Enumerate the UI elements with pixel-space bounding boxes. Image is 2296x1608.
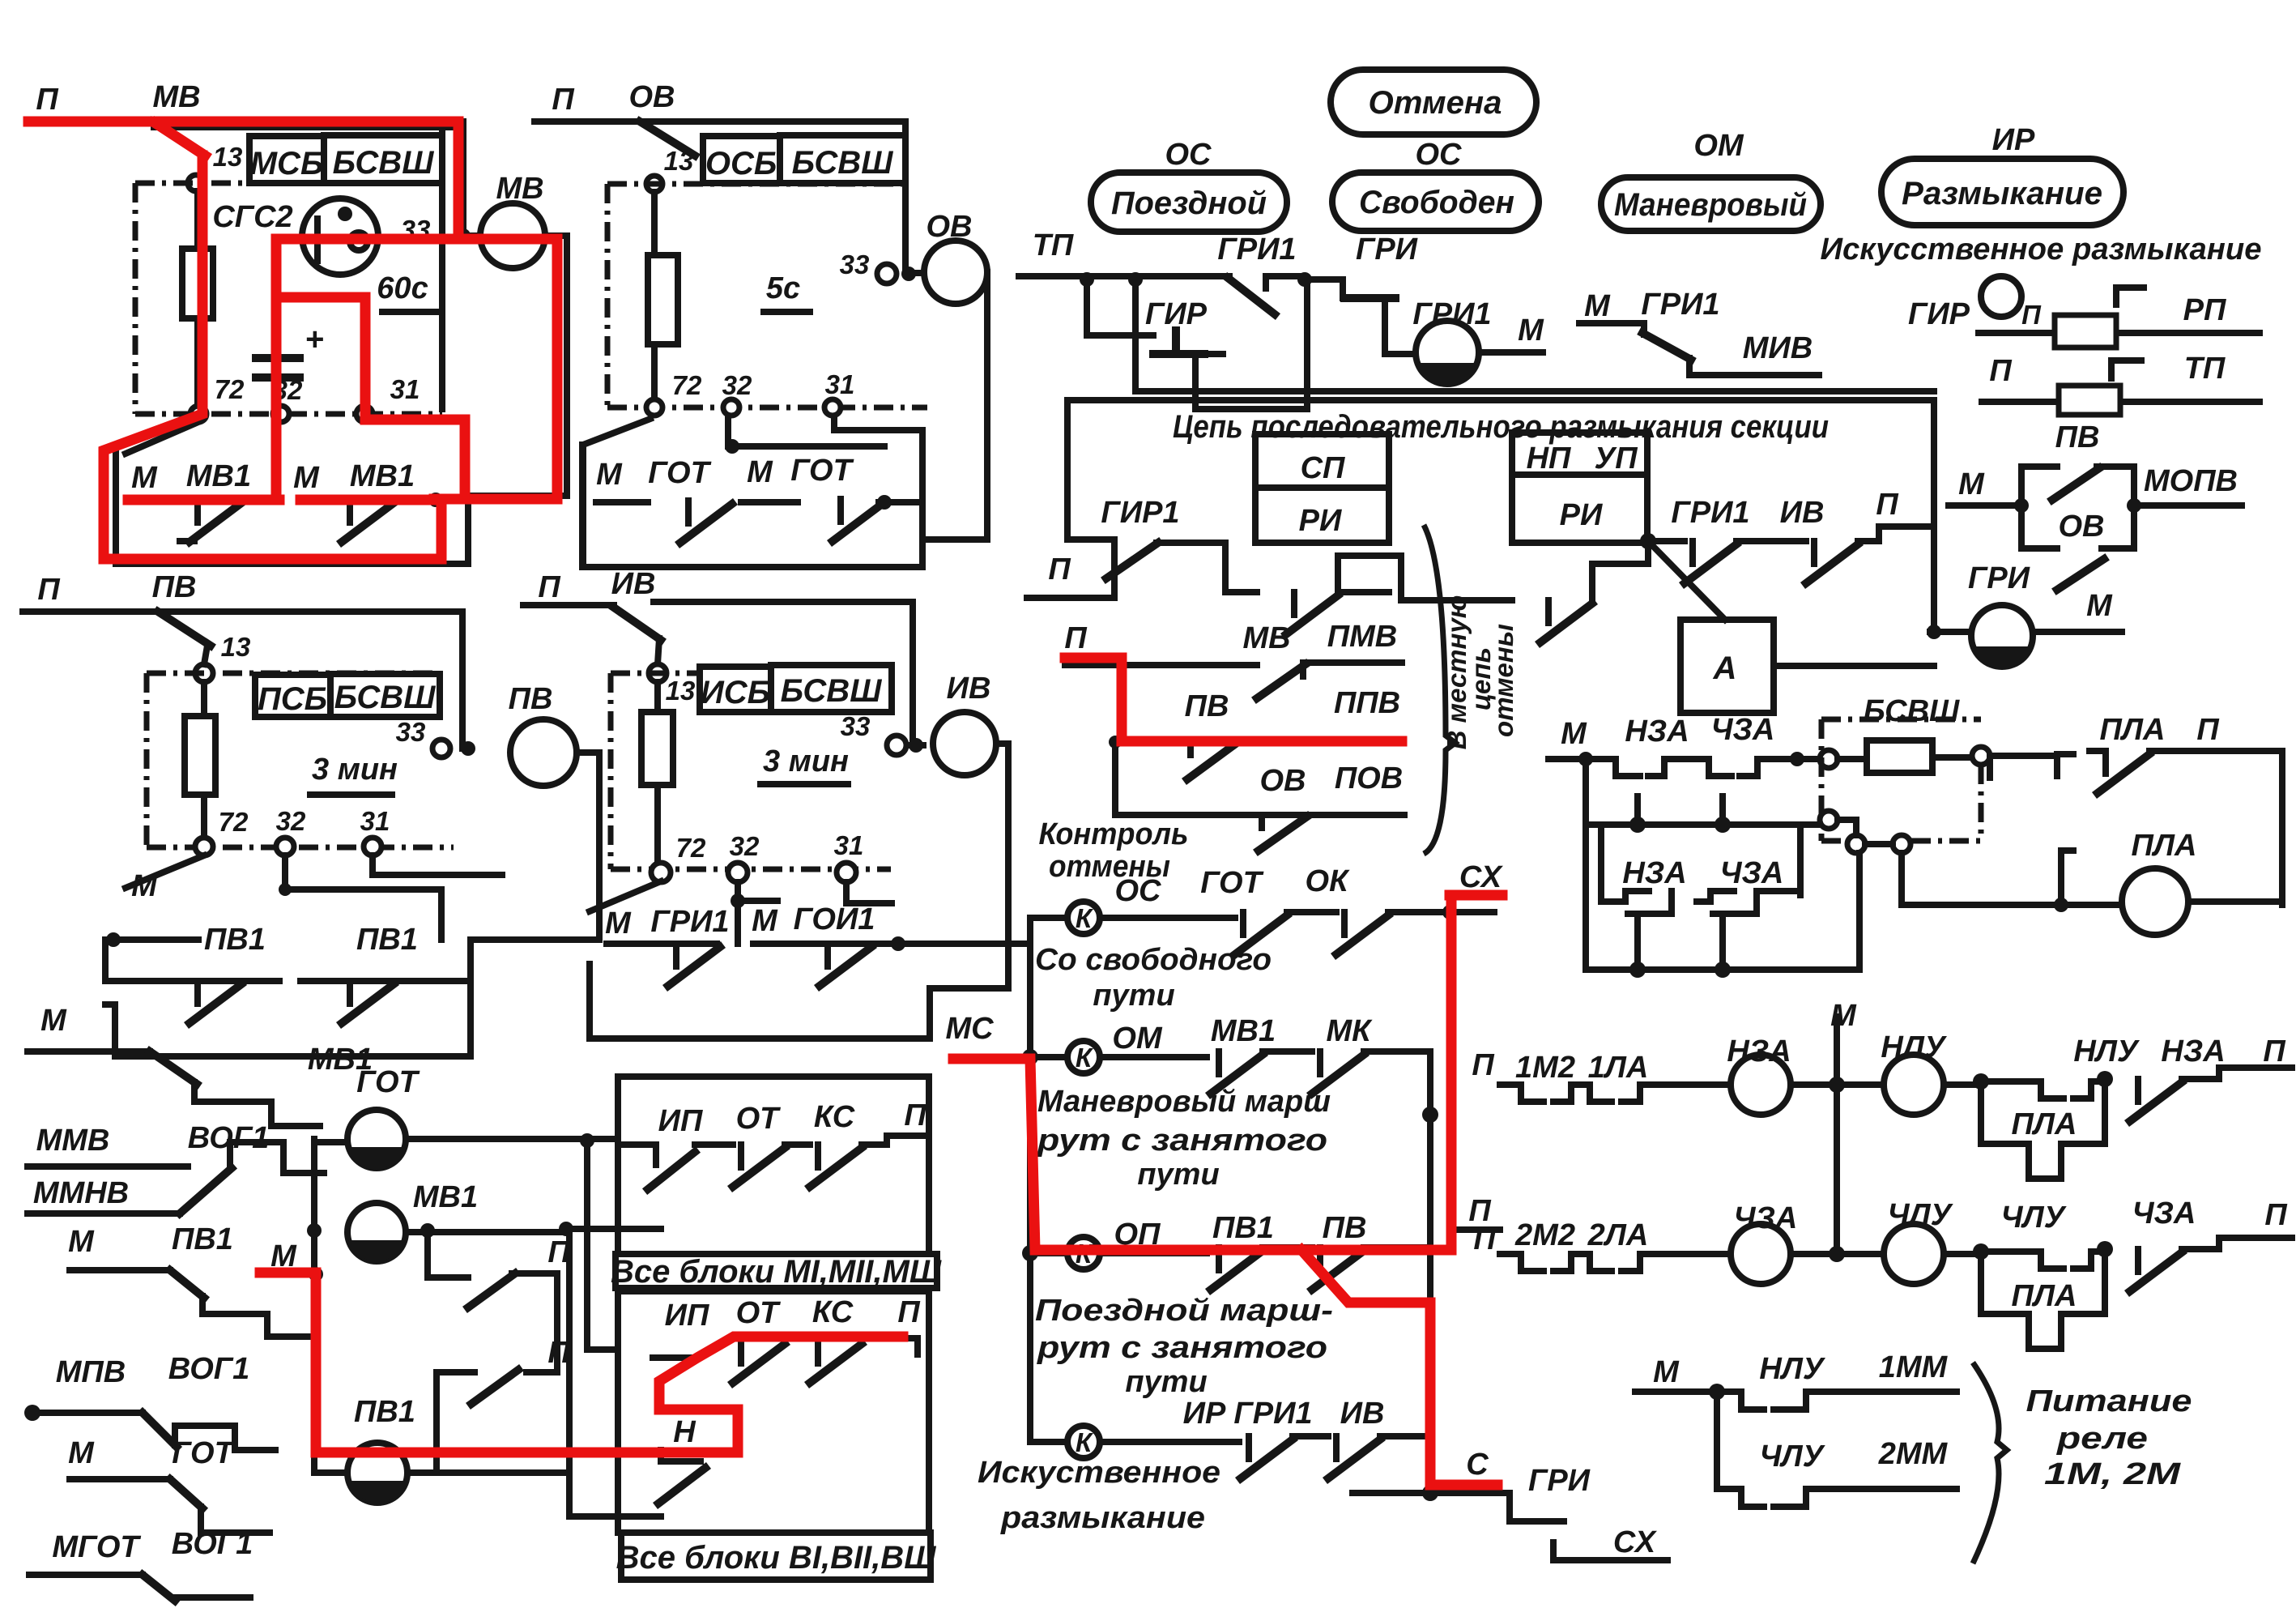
svg-text:М: М — [131, 461, 158, 495]
contact IV — [614, 608, 661, 640]
svg-text:МВ1: МВ1 — [413, 1180, 478, 1214]
svg-text:ОВ: ОВ — [1260, 764, 1306, 798]
svg-text:ОВ: ОВ — [2059, 510, 2105, 544]
svg-text:МВ: МВ — [152, 80, 200, 114]
block bottom dash — [611, 867, 891, 872]
contact GRI1 — [1228, 278, 1275, 314]
button GIR — [1153, 331, 1204, 354]
svg-text:3 мин: 3 мин — [763, 744, 849, 778]
svg-text:ОТ: ОТ — [736, 1102, 782, 1136]
right bus — [1427, 1057, 1433, 1442]
svg-text:ИР: ИР — [1183, 1397, 1226, 1431]
OV contact lower branch — [2021, 505, 2134, 548]
wire to lower contacts — [126, 422, 198, 454]
wire PLA row — [1902, 902, 2282, 905]
strip Vse bloki V — [621, 1533, 931, 1580]
svg-text:МК: МК — [1326, 1014, 1373, 1048]
svg-text:ПМВ: ПМВ — [1327, 620, 1397, 654]
wire P feed — [535, 122, 920, 273]
svg-text:РП: РП — [2183, 293, 2226, 327]
motor element — [302, 198, 378, 275]
resistor — [648, 255, 678, 344]
contact RI — [1286, 592, 1338, 634]
relay box BSVSH — [771, 665, 892, 712]
svg-text:С: С — [1466, 1448, 1489, 1482]
svg-text:П: П — [547, 1336, 570, 1370]
row OP — [1022, 1245, 1038, 1261]
svg-text:размыкание: размыкание — [1000, 1501, 1205, 1535]
box A — [1680, 620, 1774, 713]
svg-text:БСВШ: БСВШ — [792, 145, 894, 181]
svg-text:ГРИ1: ГРИ1 — [1217, 232, 1296, 267]
junction — [456, 228, 471, 243]
svg-text:ПВ: ПВ — [509, 682, 553, 716]
svg-text:ПВ: ПВ — [152, 570, 197, 604]
svg-text:ОС: ОС — [1115, 874, 1162, 908]
svg-text:РИ: РИ — [1560, 498, 1603, 532]
svg-text:ММВ: ММВ — [36, 1124, 110, 1158]
svg-text:2ЛА: 2ЛА — [1587, 1218, 1649, 1252]
svg-text:ВОГ1: ВОГ1 — [168, 1352, 250, 1386]
sub box NZA ChZA rails — [1586, 759, 1859, 970]
svg-text:ГИР: ГИР — [1145, 297, 1208, 331]
svg-text:К: К — [1076, 1427, 1094, 1457]
svg-text:ЧЛУ: ЧЛУ — [1760, 1440, 1826, 1474]
svg-text:Поездной: Поездной — [1111, 186, 1267, 221]
svg-text:ГОТ: ГОТ — [648, 456, 711, 490]
BSVSH terminals — [1820, 750, 1838, 768]
svg-text:13: 13 — [221, 632, 251, 662]
svg-text:ПЛА: ПЛА — [2132, 829, 2197, 863]
svg-text:М: М — [2086, 589, 2113, 623]
svg-text:П: П — [2196, 713, 2219, 747]
svg-text:П: П — [1472, 1048, 1494, 1082]
svg-text:М: М — [1561, 717, 1587, 751]
block top dash — [147, 671, 440, 676]
row OM — [1022, 1049, 1038, 1065]
svg-text:П: П — [1064, 621, 1087, 655]
svg-text:П: П — [1473, 1222, 1496, 1256]
svg-text:ОС: ОС — [1416, 138, 1463, 172]
block top dash — [611, 671, 700, 676]
svg-text:ГРИ1: ГРИ1 — [1641, 288, 1719, 322]
contact IV — [1806, 541, 1858, 583]
relay box OSB — [703, 136, 780, 183]
relay GRI1 (half fill) — [1385, 319, 1416, 354]
svg-text:БСВШ: БСВШ — [1864, 694, 1960, 728]
wire into terminal — [658, 638, 659, 664]
contact PV1 — [1211, 1248, 1263, 1290]
svg-text:ПВ1: ПВ1 — [1212, 1211, 1274, 1245]
svg-text:НЛУ: НЛУ — [1881, 1030, 1948, 1064]
contact bar PV1 — [121, 978, 471, 984]
svg-text:Питание: Питание — [2026, 1384, 2192, 1418]
oval Manevroviy — [1601, 177, 1821, 231]
fuse TP body — [2059, 386, 2120, 415]
svg-text:60с: 60с — [377, 271, 428, 305]
svg-text:отмены: отмены — [1489, 624, 1519, 737]
svg-text:ПВ1: ПВ1 — [356, 923, 418, 957]
wire resistor — [194, 191, 201, 406]
fuse RP wire — [1979, 330, 2260, 336]
svg-text:1ЛА: 1ЛА — [1588, 1051, 1649, 1085]
box outline — [1067, 400, 1934, 632]
svg-text:ГРИ: ГРИ — [1356, 232, 1418, 267]
M bar — [105, 936, 198, 943]
svg-text:72: 72 — [676, 833, 706, 863]
svg-text:ТП: ТП — [1033, 228, 1074, 262]
resistor wires — [651, 192, 658, 406]
svg-text:РИ: РИ — [1299, 504, 1342, 538]
relay box BSVSH — [324, 135, 442, 183]
wire MOPV — [2134, 502, 2242, 509]
svg-text:31: 31 — [825, 369, 855, 399]
red trace MS — [953, 895, 1502, 1250]
svg-text:ГРИ1: ГРИ1 — [1412, 297, 1491, 331]
wire M right — [2033, 629, 2122, 635]
vertical MV1 to PV1 — [569, 1229, 661, 1516]
svg-text:1М, 2М: 1М, 2М — [2044, 1457, 2182, 1491]
red trace to S — [1301, 1250, 1497, 1485]
svg-text:ИР: ИР — [1992, 123, 2035, 157]
wire terminal to contacts — [590, 881, 661, 911]
contact GRI closed bar — [1305, 279, 1385, 319]
svg-text:32: 32 — [276, 806, 306, 836]
relay box ISB — [700, 667, 771, 712]
svg-text:П: П — [36, 83, 58, 117]
contact GIR1 — [1106, 543, 1158, 578]
svg-text:+: + — [305, 322, 323, 357]
svg-text:Маневровый: Маневровый — [1614, 187, 1807, 223]
block top dash — [607, 181, 905, 187]
wire P feed — [523, 602, 614, 608]
svg-text:ПВ: ПВ — [2055, 420, 2100, 454]
svg-text:П: П — [1048, 552, 1071, 586]
svg-text:Все блоки ВI,ВII,ВШ: Все блоки ВI,ВII,ВШ — [616, 1540, 937, 1576]
svg-text:31: 31 — [834, 830, 864, 860]
wire M — [1479, 349, 1543, 356]
contact 1M2 (step) — [1521, 1085, 1571, 1102]
brace — [1424, 525, 1455, 854]
svg-text:М: М — [752, 904, 778, 938]
svg-text:МВ1: МВ1 — [186, 459, 251, 493]
svg-text:М: М — [596, 458, 623, 492]
wire to GRI coil — [1930, 629, 1971, 635]
svg-text:М: М — [1518, 313, 1544, 348]
svg-text:ГРИ1: ГРИ1 — [1671, 496, 1749, 530]
PLA box row2 — [1981, 1257, 2105, 1349]
svg-text:реле: реле — [2056, 1422, 2148, 1456]
main row wire — [1548, 756, 1822, 762]
svg-text:13: 13 — [666, 676, 696, 706]
svg-text:ГРИ1: ГРИ1 — [1233, 1397, 1312, 1431]
contact bar — [607, 901, 892, 944]
block bottom dash — [607, 405, 927, 411]
svg-text:НЗА: НЗА — [1622, 856, 1686, 890]
svg-text:13: 13 — [664, 146, 694, 176]
svg-text:М: М — [68, 1436, 95, 1470]
svg-text:ОВ: ОВ — [629, 80, 675, 114]
oval Svoboden — [1332, 173, 1539, 231]
svg-text:МПВ: МПВ — [56, 1355, 126, 1389]
svg-text:Цепь последовательного размыка: Цепь последовательного размыкания секции — [1173, 409, 1829, 445]
red trace block MV — [28, 122, 557, 559]
relay PV1 half filled — [347, 1443, 407, 1503]
svg-text:ЧЗА: ЧЗА — [2132, 1196, 2196, 1231]
svg-text:ОВ: ОВ — [926, 210, 973, 244]
contact MK — [1312, 1051, 1364, 1094]
fuse TP wire — [1982, 399, 2260, 405]
svg-text:СП: СП — [1301, 451, 1345, 485]
svg-text:13: 13 — [213, 142, 243, 172]
svg-text:ОМ: ОМ — [1112, 1022, 1163, 1056]
relay coil OV — [924, 241, 987, 304]
fuse TP bracket — [2111, 360, 2141, 378]
resistor R — [182, 249, 213, 318]
svg-text:МИВ: МИВ — [1743, 331, 1813, 365]
svg-text:Маневровый марш: Маневровый марш — [1037, 1085, 1331, 1119]
lower contact bar — [128, 497, 468, 503]
svg-text:ИВ: ИВ — [1780, 496, 1825, 530]
svg-text:ЧЛУ: ЧЛУ — [2001, 1201, 2068, 1235]
contact OK — [1336, 912, 1388, 954]
svg-text:ПВ1: ПВ1 — [204, 923, 266, 957]
svg-text:М: М — [605, 906, 632, 940]
PV1 right wire — [407, 1469, 568, 1476]
strip Vse bloki M — [616, 1254, 937, 1288]
GOT wires — [314, 1139, 618, 1142]
svg-text:32: 32 — [722, 370, 752, 400]
box IP OT KS P upper — [618, 1077, 929, 1254]
wire P feed — [154, 122, 480, 236]
svg-text:пути: пути — [1137, 1158, 1219, 1192]
svg-text:НП: НП — [1527, 441, 1571, 476]
svg-text:П: П — [2264, 1198, 2287, 1232]
svg-text:СГС2: СГС2 — [212, 200, 292, 234]
contacts row — [618, 1145, 656, 1165]
wire P feed — [23, 612, 468, 749]
contact PV — [158, 612, 211, 646]
svg-text:НЗА: НЗА — [2161, 1034, 2225, 1068]
relay coil PLA — [2122, 868, 2188, 935]
relay coil IV — [933, 712, 996, 775]
row IR — [1030, 1439, 1067, 1445]
svg-text:Искусственное размыкание: Искусственное размыкание — [1821, 232, 2262, 267]
block left edge — [133, 183, 138, 414]
svg-text:П: П — [1876, 488, 1898, 522]
PLA box row1 — [1981, 1087, 2105, 1179]
svg-text:Н: Н — [673, 1415, 696, 1449]
capacitor C — [256, 358, 300, 377]
resistor — [1867, 740, 1932, 773]
resistor — [185, 716, 215, 795]
svg-text:ГОТ: ГОТ — [172, 1436, 235, 1470]
svg-text:33: 33 — [841, 711, 871, 741]
svg-text:1ММ: 1ММ — [1879, 1350, 1949, 1384]
svg-text:МОПВ: МОПВ — [2144, 464, 2238, 498]
svg-text:пути: пути — [1125, 1365, 1207, 1399]
svg-text:ТП: ТП — [2184, 352, 2226, 386]
svg-text:Контроль: Контроль — [1039, 817, 1189, 851]
svg-text:БСВШ: БСВШ — [333, 145, 435, 181]
svg-text:31: 31 — [390, 374, 420, 404]
block left edge — [605, 184, 611, 407]
svg-text:НЛУ: НЛУ — [1759, 1352, 1826, 1386]
svg-text:ПВ1: ПВ1 — [172, 1222, 233, 1256]
block top dash line — [135, 181, 442, 186]
svg-text:3 мин: 3 мин — [312, 753, 398, 787]
relay box BSVSH — [330, 674, 440, 717]
svg-text:ГОТ: ГОТ — [356, 1065, 420, 1099]
svg-text:ЧЗА: ЧЗА — [1720, 856, 1784, 890]
contact GRI1 — [1241, 1436, 1293, 1478]
svg-text:33: 33 — [840, 250, 870, 279]
svg-text:ГОТ: ГОТ — [1200, 866, 1263, 900]
block left edge — [608, 673, 614, 869]
relay K OP — [1067, 1237, 1100, 1269]
contact RI second — [1540, 600, 1592, 642]
svg-text:ОСБ: ОСБ — [705, 146, 777, 181]
svg-text:Все блоки МI,МII,МШ: Все блоки МI,МII,МШ — [611, 1254, 942, 1290]
indicator GIR circle — [1981, 276, 2021, 317]
OV contact upper branch — [2021, 467, 2057, 505]
svg-text:К: К — [1076, 1043, 1094, 1073]
svg-text:П: П — [552, 83, 574, 117]
svg-text:М: М — [131, 869, 158, 903]
left bus — [1027, 918, 1033, 1442]
svg-text:ПОВ: ПОВ — [1335, 761, 1403, 795]
M vertical — [1834, 1017, 1840, 1254]
svg-text:СХ: СХ — [1459, 860, 1504, 894]
svg-text:П: П — [538, 570, 560, 604]
contact IV — [1328, 1436, 1380, 1478]
svg-text:УП: УП — [1594, 441, 1638, 476]
svg-text:КС: КС — [812, 1295, 854, 1329]
svg-text:П: П — [2263, 1034, 2285, 1068]
svg-text:МВ: МВ — [1242, 621, 1290, 655]
svg-text:ИП: ИП — [665, 1299, 709, 1333]
svg-text:ГОТ: ГОТ — [790, 454, 854, 488]
svg-text:М: М — [747, 455, 773, 489]
wire to A box — [1648, 541, 1725, 620]
svg-text:Размыкание: Размыкание — [1902, 176, 2102, 211]
block bottom dash line — [135, 412, 442, 417]
svg-text:Искуственное: Искуственное — [978, 1456, 1220, 1490]
svg-text:БСВШ: БСВШ — [334, 680, 437, 715]
oval Poezdnoy — [1091, 173, 1287, 232]
svg-text:П: П — [897, 1295, 920, 1329]
svg-text:72: 72 — [215, 374, 245, 404]
svg-text:Со свободного: Со свободного — [1035, 943, 1272, 977]
svg-text:Поездной марш-: Поездной марш- — [1035, 1294, 1333, 1328]
svg-text:ЧЗА: ЧЗА — [1711, 713, 1775, 747]
svg-text:33: 33 — [396, 717, 426, 747]
relay MV1 half filled — [347, 1203, 406, 1261]
red trace local cancel — [1065, 658, 1402, 741]
wire M — [1949, 502, 2021, 509]
svg-text:НЗА: НЗА — [1625, 714, 1689, 749]
svg-text:ИВ: ИВ — [947, 672, 991, 706]
svg-text:5с: 5с — [766, 271, 800, 305]
svg-text:ОМ: ОМ — [1693, 129, 1744, 163]
svg-text:ГОИ1: ГОИ1 — [794, 902, 875, 936]
relay box BSVSH — [780, 135, 905, 183]
wire to chain box — [1135, 279, 1934, 391]
svg-text:МСБ: МСБ — [250, 146, 324, 181]
contacts row lower — [653, 1354, 697, 1361]
svg-text:ПСБ: ПСБ — [258, 681, 327, 717]
wires from terminals down — [285, 855, 502, 940]
svg-text:рут с занятого: рут с занятого — [1037, 1331, 1327, 1365]
svg-text:ВОГ1: ВОГ1 — [172, 1527, 253, 1561]
relay box PSB — [255, 675, 330, 717]
GIR loop — [1195, 279, 1307, 409]
svg-text:П: П — [1989, 354, 2012, 388]
svg-text:П: П — [2021, 300, 2042, 330]
svg-text:рут с занятого: рут с занятого — [1037, 1124, 1327, 1158]
svg-text:Свободен: Свободен — [1359, 185, 1514, 220]
contact GRI1 — [1648, 538, 1685, 544]
svg-text:МС: МС — [945, 1012, 994, 1046]
coil return — [590, 744, 1008, 1039]
contact PV — [1312, 1248, 1364, 1290]
svg-text:ПВ: ПВ — [1185, 689, 1229, 723]
svg-text:М: М — [40, 1004, 67, 1038]
svg-text:М: М — [1584, 289, 1611, 323]
contact bar — [596, 499, 922, 505]
bottom box — [115, 981, 471, 1056]
relay coil PV — [510, 719, 577, 786]
box NP UP RI — [1512, 433, 1647, 543]
relay coil MV — [480, 203, 545, 268]
junction — [1080, 272, 1094, 287]
svg-text:ОС: ОС — [1165, 138, 1212, 172]
svg-text:П: П — [904, 1098, 926, 1132]
svg-text:ИВ: ИВ — [1340, 1397, 1385, 1431]
svg-text:М: М — [293, 461, 320, 495]
svg-text:МВ: МВ — [496, 172, 543, 206]
brace — [1973, 1363, 2007, 1563]
contact N — [661, 1458, 701, 1465]
red trace M to N to P — [260, 1273, 903, 1452]
svg-text:ПЛА: ПЛА — [2012, 1279, 2077, 1313]
svg-text:ПВ1: ПВ1 — [354, 1395, 415, 1429]
svg-text:К: К — [1076, 903, 1094, 933]
svg-text:72: 72 — [672, 370, 702, 400]
fuse RP bracket — [2116, 288, 2144, 305]
junction — [1640, 533, 1656, 549]
box outline dashdot — [1821, 719, 1981, 841]
svg-text:31: 31 — [360, 806, 390, 836]
svg-text:М: М — [68, 1225, 95, 1259]
svg-text:2ММ: 2ММ — [1878, 1437, 1949, 1471]
svg-text:ГРИ: ГРИ — [1968, 561, 2030, 595]
svg-text:32: 32 — [730, 831, 760, 861]
bus entry — [1027, 540, 1114, 598]
svg-text:МВ1: МВ1 — [1211, 1014, 1276, 1048]
svg-text:ГРИ: ГРИ — [1528, 1464, 1591, 1498]
svg-text:ПЛА: ПЛА — [2012, 1107, 2077, 1141]
svg-text:2М2: 2М2 — [1514, 1218, 1575, 1252]
vertical from GOT row to box — [587, 1141, 618, 1350]
top wire — [654, 602, 923, 745]
block right edge — [439, 130, 445, 409]
left bus — [314, 1139, 347, 1473]
row OS — [1030, 915, 1067, 921]
fuse RP body — [2055, 315, 2116, 348]
box SP RI — [1255, 434, 1389, 543]
svg-text:А: А — [1713, 650, 1737, 686]
